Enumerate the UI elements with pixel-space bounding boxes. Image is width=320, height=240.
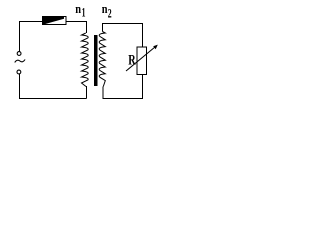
wire bottom primary: [19, 98, 87, 100]
label n1: [75, 2, 85, 20]
wire left vertical lower: [19, 74, 21, 98]
wire secondary top horizontal: [102, 23, 143, 25]
wire down to primary coil: [86, 21, 88, 33]
variable resistor arrow: [126, 45, 158, 71]
wire right vertical upper: [142, 23, 144, 47]
transformer core: [94, 35, 98, 86]
svg-text:n: n: [75, 2, 81, 16]
AC source terminal circle bottom: [17, 70, 21, 74]
wire box to corner: [66, 21, 87, 23]
wire left vertical upper: [19, 21, 21, 51]
secondary coil winding: [99, 32, 105, 87]
wire secondary coil stub bottom: [102, 87, 104, 99]
label n2: [102, 2, 112, 21]
svg-text:n: n: [102, 2, 108, 16]
svg-text:1: 1: [82, 6, 86, 21]
wire secondary coil stub top: [102, 23, 104, 32]
rheostat wedge fill: [43, 17, 64, 25]
AC source terminal circle top: [17, 52, 21, 56]
resistor R box: [137, 47, 146, 75]
svg-text:2: 2: [108, 7, 112, 22]
wire bottom secondary: [103, 98, 144, 100]
wire primary coil to bottom: [86, 86, 88, 99]
primary coil winding: [82, 33, 89, 87]
svg-text:R: R: [128, 52, 136, 68]
AC tilde symbol: [15, 60, 25, 63]
wire top-left horizontal: [19, 21, 43, 23]
wire right vertical lower: [142, 75, 144, 100]
rheostat box outline: [43, 17, 67, 25]
